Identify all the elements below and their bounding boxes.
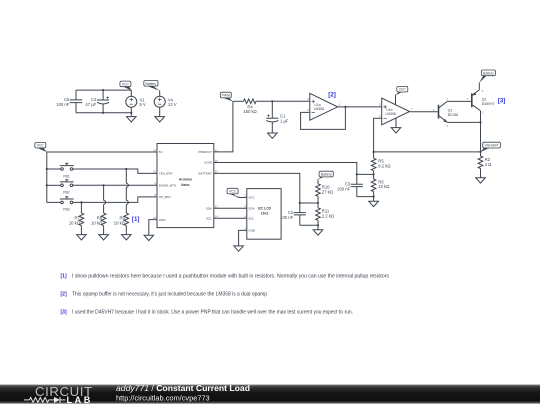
svg-text:[3]: [3] <box>61 310 67 316</box>
svg-text:12 V: 12 V <box>168 102 177 107</box>
svg-text:VCC: VCC <box>37 144 45 148</box>
svg-text:GND: GND <box>159 218 167 222</box>
svg-text:150 kΩ: 150 kΩ <box>243 109 256 114</box>
pushbutton PB2 <box>47 180 157 195</box>
svg-text:D45VH7: D45VH7 <box>482 102 495 106</box>
ground below Arduino <box>144 235 154 240</box>
svg-text:10 kΩ: 10 kΩ <box>114 221 125 226</box>
voltage source V4 12V <box>154 90 177 116</box>
op-amp U1b <box>379 98 413 125</box>
flag VSHUNT <box>481 142 501 152</box>
node junction R11 bottom <box>317 224 319 226</box>
notes <box>61 274 390 316</box>
wire VSHUNT rail <box>374 151 481 153</box>
node junction R6 bottom <box>373 196 375 198</box>
node junction bus PB2 <box>46 184 48 186</box>
svg-text:PB3: PB3 <box>63 208 70 212</box>
wire top rail caps to V1 <box>76 89 131 91</box>
resistor R11 2.2k <box>316 203 334 225</box>
svg-text:I used the D45VH7 because I ha: I used the D45VH7 because I had it in st… <box>72 310 353 316</box>
flag VCC left <box>35 142 47 152</box>
ground below V4 <box>155 117 165 122</box>
wire Q1 emitter to shunt node <box>447 121 480 123</box>
svg-text:VCC: VCC <box>399 88 407 92</box>
svg-text:LAB: LAB <box>67 395 93 405</box>
svg-text:DOWN_BTN: DOWN_BTN <box>159 183 176 187</box>
svg-text:Battery: Battery <box>483 71 494 75</box>
ground below C1 <box>268 133 278 138</box>
svg-text:SDA: SDA <box>206 206 212 210</box>
wire Q1 collector to Q2 base <box>447 100 472 102</box>
svg-text:SCL: SCL <box>206 216 212 220</box>
svg-text:http://circuitlab.com/cvpe773: http://circuitlab.com/cvpe773 <box>116 393 210 402</box>
svg-text:SDA: SDA <box>248 206 254 210</box>
wire U1a feedback loop <box>301 107 346 129</box>
capacitor C4 <box>85 90 109 113</box>
flag VCC at V1 <box>120 81 131 90</box>
pushbutton PB3 <box>47 197 157 212</box>
svg-text:BATTERY: BATTERY <box>198 172 212 176</box>
node junction C4 top <box>102 89 104 91</box>
svg-text:47 µF: 47 µF <box>85 102 96 107</box>
Arduino Nano block U3 <box>153 144 218 228</box>
svg-text:10 kΩ: 10 kΩ <box>378 184 389 189</box>
resistor R5 8.2k <box>371 152 390 175</box>
capacitor C5 <box>56 90 82 113</box>
ground below R9 <box>122 235 132 240</box>
capacitor C1 1uF <box>266 101 289 133</box>
node junction C4 bottom <box>102 112 104 114</box>
ground below R11 <box>313 225 323 235</box>
svg-text:Arduino: Arduino <box>179 178 192 182</box>
ground below V1 <box>127 117 137 122</box>
voltage source V1 5V <box>126 90 146 117</box>
wire U1a output to U1b + <box>338 106 382 108</box>
svg-text:LM358: LM358 <box>386 112 396 116</box>
svg-text:16x2: 16x2 <box>261 212 269 216</box>
wire R4 to opamp U1a + <box>256 100 310 102</box>
node junction V1 bottom <box>130 112 132 114</box>
node junction battery divider <box>317 202 319 204</box>
node junction VSHUNT <box>479 151 481 153</box>
svg-text:GND: GND <box>248 229 256 233</box>
capacitor C2 100nF <box>280 203 306 225</box>
ground below R8 <box>99 235 109 240</box>
svg-text:Nano: Nano <box>181 183 189 187</box>
node junction C3 top / LOAD sense <box>356 173 358 175</box>
wire Arduino BATTERY to divider <box>214 173 300 203</box>
wire VCC to Arduino 5V <box>47 151 157 153</box>
I2C LCD block <box>244 189 281 240</box>
node junction U1a output <box>344 106 346 108</box>
ground below R6 <box>369 197 379 207</box>
node junction PB2 to R8 <box>103 184 105 186</box>
svg-text:10 kΩ: 10 kΩ <box>91 221 102 226</box>
svg-text:This opamp buffer is not neces: This opamp buffer is not necessary, it's… <box>72 292 267 298</box>
svg-text:PWMOUT: PWMOUT <box>198 150 212 154</box>
resistor R9 10k <box>114 213 129 235</box>
flag Battery at R10 <box>318 171 333 179</box>
svg-text:[1]: [1] <box>61 274 67 280</box>
svg-text:27 kΩ: 27 kΩ <box>322 189 333 194</box>
svg-text:VCC: VCC <box>248 196 255 200</box>
wire Arduino GND to ground <box>149 220 157 236</box>
resistor R10 27k <box>316 179 333 203</box>
svg-text:[2]: [2] <box>328 92 336 99</box>
svg-text:Q1: Q1 <box>448 108 453 112</box>
node junction PB3 to R7 <box>80 201 82 203</box>
node junction PB1 to R9 <box>125 168 127 170</box>
logo CIRCUIT text <box>35 384 93 399</box>
svg-text:UP_BTN: UP_BTN <box>159 195 171 199</box>
resistor R6 10k <box>371 174 389 196</box>
wire R8 from PB2 with hop <box>104 185 106 213</box>
svg-text:YES_BTN: YES_BTN <box>159 172 173 176</box>
flag Battery at Q2 <box>479 70 495 83</box>
svg-text:2.2 kΩ: 2.2 kΩ <box>322 213 334 218</box>
resistor R2 2ohm <box>478 152 491 178</box>
transistor Q1 BC338 NPN <box>433 97 458 128</box>
svg-text:PWM: PWM <box>222 94 230 98</box>
pushbutton PB1 <box>47 163 157 178</box>
wire PWM node to R4 <box>233 100 244 102</box>
flag VCC at U1b <box>396 86 408 104</box>
ground below U1b <box>391 118 401 133</box>
wire SDA <box>214 207 247 209</box>
flag Battery at V4 <box>144 80 160 90</box>
ground below R2 <box>476 178 486 183</box>
svg-text:LOAD: LOAD <box>204 161 213 165</box>
transistor Q2 D45VH7 PNP <box>467 83 495 115</box>
wire R9 from PB1 with hops <box>126 169 128 213</box>
svg-text:1 µF: 1 µF <box>280 118 289 123</box>
svg-text:100 nF: 100 nF <box>56 102 69 107</box>
flag PWM <box>220 92 233 101</box>
wire C2 bottom rail <box>300 224 318 226</box>
wire C3 bottom to R6 bottom <box>357 196 374 198</box>
svg-text:addy771 / Constant Current Loa: addy771 / Constant Current Load <box>116 383 250 393</box>
svg-text:SCL: SCL <box>248 216 254 220</box>
wire VCC bus down <box>46 152 48 202</box>
wire divider to C3 top <box>357 173 374 175</box>
ground below LCD <box>234 246 244 251</box>
svg-text:[1]: [1] <box>132 216 140 223</box>
svg-text:I show pulldown resistors here: I show pulldown resistors here because I… <box>72 274 389 280</box>
node junction R5/R6 divider <box>373 173 375 175</box>
svg-text:PB1: PB1 <box>63 174 70 178</box>
wire battery divider to C2 <box>300 202 318 204</box>
svg-text:Battery: Battery <box>146 82 157 86</box>
svg-text:8.2 kΩ: 8.2 kΩ <box>378 163 390 168</box>
svg-text:Q2: Q2 <box>482 98 487 102</box>
svg-text:10 kΩ: 10 kΩ <box>69 221 80 226</box>
svg-text:100 nF: 100 nF <box>337 187 350 192</box>
node junction bus PB1 <box>46 168 48 170</box>
resistor R4 150k <box>243 99 256 114</box>
svg-text:5 V: 5 V <box>140 102 146 107</box>
resistor R7 10k <box>69 202 84 234</box>
footer title text <box>116 383 250 402</box>
svg-text:5V: 5V <box>159 150 163 154</box>
capacitor C3 100nF <box>337 174 363 196</box>
svg-text:VCC: VCC <box>122 82 130 86</box>
wire U1b inverting input to shunt sense <box>374 118 382 152</box>
node junction Q1 emitter / Q2 collector <box>479 121 481 123</box>
svg-text:BC338: BC338 <box>448 113 458 117</box>
svg-text:2 Ω: 2 Ω <box>485 162 492 167</box>
wire PWM node down to Arduino PWMOUT <box>214 101 233 152</box>
node junction C2 top <box>299 202 301 204</box>
svg-text:PB2: PB2 <box>63 191 70 195</box>
flag VCC at LCD <box>227 188 247 197</box>
svg-text:I2C LCD: I2C LCD <box>258 206 272 210</box>
op-amp U1a <box>307 93 341 120</box>
resistor R8 10k <box>91 213 106 235</box>
wire SCL <box>214 217 247 219</box>
svg-text:VCC: VCC <box>229 190 237 194</box>
svg-text:100 nF: 100 nF <box>280 215 293 220</box>
svg-text:[2]: [2] <box>61 292 67 298</box>
logo wire resistor diode glyph <box>24 397 66 403</box>
wire bottom rail caps to V1 <box>76 112 131 114</box>
wire Q2 collector down to VSHUNT node <box>480 111 482 152</box>
ground below R7 <box>77 235 87 240</box>
svg-text:[3]: [3] <box>498 97 506 104</box>
svg-text:LM358: LM358 <box>314 107 324 111</box>
node junction C1 top <box>271 100 273 102</box>
wire Arduino LOAD to divider <box>214 163 357 175</box>
logo LAB text <box>67 395 93 405</box>
wire LCD GND to ground <box>239 230 247 246</box>
wire U1b output to Q1 base <box>410 111 439 113</box>
node junction R5 top <box>373 151 375 153</box>
svg-text:Battery: Battery <box>321 173 332 177</box>
svg-text:VSHUNT: VSHUNT <box>485 144 499 148</box>
